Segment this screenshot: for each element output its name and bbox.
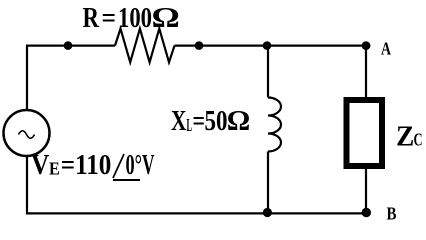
- svg-text:C: C: [414, 129, 423, 149]
- svg-text:R: R: [83, 3, 100, 34]
- svg-text:Z: Z: [396, 121, 414, 152]
- svg-text:A: A: [381, 39, 391, 59]
- svg-text:E: E: [49, 159, 60, 179]
- svg-text:Ω: Ω: [227, 106, 251, 137]
- svg-text:B: B: [387, 203, 397, 223]
- svg-text:100: 100: [118, 3, 152, 34]
- svg-text:=: =: [193, 106, 206, 137]
- svg-text:X: X: [171, 106, 187, 137]
- svg-text:V: V: [31, 150, 50, 181]
- svg-text:=: =: [102, 3, 117, 34]
- svg-text:L: L: [187, 115, 193, 135]
- svg-text:Ω: Ω: [152, 3, 180, 34]
- svg-text:50: 50: [205, 106, 228, 137]
- svg-text:V: V: [142, 150, 155, 181]
- svg-text:0°: 0°: [126, 150, 143, 181]
- svg-text:=110: =110: [61, 150, 112, 181]
